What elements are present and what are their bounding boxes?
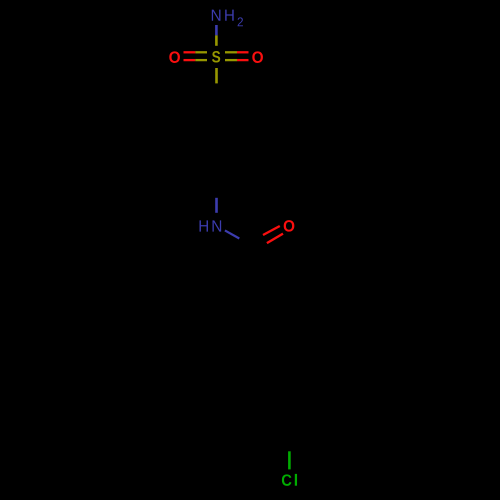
bond C=O lower line, red half (267, 234, 283, 244)
bond aryl C-N(amide) visible blue half (215, 198, 218, 213)
atom label H of sulfonamide NH2 (225, 10, 233, 21)
atom label S sulfonyl sulfur (212, 51, 220, 63)
bond C=O upper line, red half (263, 226, 280, 235)
atom label subscript 2 of NH2 (238, 17, 243, 26)
bond N-S upper half (nitrogen blue) (215, 25, 218, 35)
bond S=O left top line, olive half (195, 51, 207, 53)
bond S-C(aryl) visible olive half (215, 68, 218, 83)
atom label N of sulfonamide NH2 (212, 10, 221, 21)
atom label O carbonyl oxygen (284, 220, 295, 232)
bond N-C(=O) visible blue half diagonal (225, 230, 239, 238)
bond S=O right bottom line, olive half (225, 59, 237, 61)
bond C-Cl visible green half (288, 451, 291, 469)
atom label O sulfonyl oxygen right (252, 51, 263, 63)
bond S=O right bottom line, red half (237, 59, 249, 61)
atom label H of amide HN (200, 220, 208, 231)
bond S=O left bottom line, olive half (195, 59, 207, 61)
bond S=O right top line, olive half (225, 51, 237, 53)
bond S=O right top line, red half (237, 51, 249, 53)
atom label O sulfonyl oxygen left (169, 51, 180, 63)
bond S=O left bottom line, red half (184, 59, 196, 61)
bond N-S lower half (sulfur olive) (215, 35, 218, 45)
bond S=O left top line, red half (184, 51, 196, 53)
atom label N of amide HN (213, 220, 222, 231)
atom label l of chlorine Cl (295, 474, 297, 486)
atom label C of chlorine Cl (282, 474, 292, 486)
